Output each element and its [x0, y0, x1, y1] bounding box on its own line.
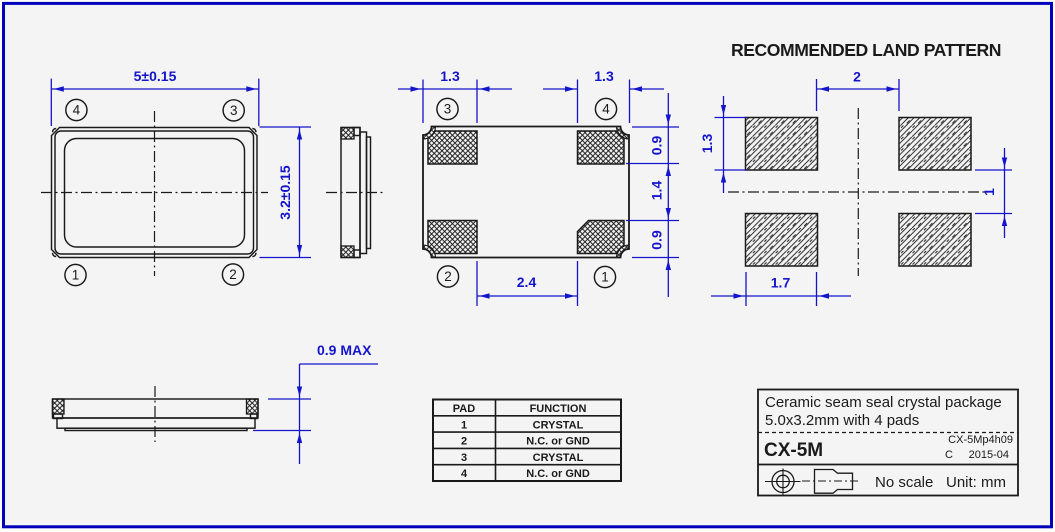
front view outer outline: [52, 128, 258, 258]
svg-text:1.3: 1.3: [699, 134, 715, 154]
land pad bottom-left: [746, 214, 818, 267]
svg-text:CRYSTAL: CRYSTAL: [533, 452, 584, 464]
side view lid: [360, 132, 367, 254]
balloon 2 bottom view: [437, 266, 458, 287]
land pad bottom-right: [899, 214, 971, 267]
svg-text:3: 3: [461, 452, 467, 464]
table column line: [495, 400, 497, 482]
side view bottom pad: [341, 246, 354, 258]
title block outline: [758, 390, 1018, 496]
dimension 1.3 left: [398, 68, 512, 123]
side view top seam detail: [354, 128, 360, 136]
profile left pad step: [54, 414, 63, 419]
pin 4 balloon: [66, 99, 87, 120]
svg-text:N.C. or GND: N.C. or GND: [526, 468, 590, 480]
svg-text:CX-5Mp4h09: CX-5Mp4h09: [948, 434, 1013, 446]
land pad top-right: [899, 118, 971, 171]
side view lid edge: [367, 137, 371, 249]
side view body: [341, 128, 360, 258]
projection symbol axis: [802, 480, 859, 482]
title block dashed divider: [758, 432, 1018, 434]
svg-text:0.9: 0.9: [649, 136, 665, 156]
svg-text:FUNCTION: FUNCTION: [530, 403, 587, 415]
svg-text:1: 1: [601, 270, 609, 285]
front view vertical centerline: [154, 111, 156, 276]
svg-text:0.9: 0.9: [649, 230, 665, 250]
profile right pad step: [251, 414, 258, 419]
svg-text:3: 3: [230, 103, 238, 118]
dimension 1.3 right: [543, 68, 664, 123]
profile centerline: [154, 386, 156, 442]
svg-text:Ceramic seam seal crystal pack: Ceramic seam seal crystal package: [765, 394, 1002, 411]
svg-text:2015-04: 2015-04: [969, 449, 1009, 461]
dimension 3.2±0.15: [260, 127, 312, 258]
svg-text:CX-5M: CX-5M: [764, 440, 823, 461]
land pattern vertical centerline: [857, 108, 859, 276]
dimension 1.7 (land pad width): [711, 272, 851, 306]
profile bottom strip: [65, 428, 247, 430]
svg-text:CRYSTAL: CRYSTAL: [533, 419, 584, 431]
svg-text:1: 1: [981, 188, 997, 196]
balloon 3 bottom view: [437, 98, 458, 119]
svg-text:1.7: 1.7: [771, 275, 791, 291]
pin 3 balloon: [223, 100, 244, 121]
front view horizontal centerline: [41, 192, 268, 194]
castellation corner band (pad 2 corner): [423, 245, 436, 258]
svg-text:2: 2: [229, 267, 237, 282]
table outline: [433, 400, 621, 482]
svg-text:3: 3: [444, 102, 452, 117]
svg-text:0.9 MAX: 0.9 MAX: [317, 342, 372, 358]
profile body: [53, 399, 259, 418]
svg-text:5±0.15: 5±0.15: [134, 68, 177, 84]
svg-text:Unit: mm: Unit: mm: [946, 474, 1006, 491]
castellation corner band (pad 3 corner): [423, 127, 436, 140]
profile right pad: [247, 399, 259, 414]
dimension 1 (land pad vertical gap): [975, 148, 1012, 238]
profile lid: [57, 418, 255, 428]
projection symbol cone: [815, 470, 853, 494]
svg-text:N.C. or GND: N.C. or GND: [526, 436, 590, 448]
svg-text:1.4: 1.4: [649, 181, 665, 201]
dimension 2 (pad gap): [817, 69, 900, 112]
castellation corner band (pad 1 corner): [617, 245, 630, 258]
pin 1 balloon: [65, 264, 86, 285]
svg-text:4: 4: [461, 468, 468, 480]
svg-text:2: 2: [853, 69, 861, 85]
balloon 1 bottom view: [594, 266, 615, 287]
svg-text:2: 2: [461, 436, 467, 448]
side view top pad: [341, 128, 354, 140]
pad 1 (hatched, chamfered): [578, 221, 625, 254]
land pattern horizontal centerline: [728, 191, 985, 193]
dimension 2.4: [477, 261, 578, 306]
side view centerline: [326, 192, 386, 194]
svg-text:RECOMMENDED LAND PATTERN: RECOMMENDED LAND PATTERN: [731, 40, 1001, 60]
svg-text:1: 1: [461, 419, 467, 431]
svg-text:3.2±0.15: 3.2±0.15: [277, 165, 293, 220]
svg-text:C: C: [945, 449, 953, 461]
front view seam ring outline: [55, 131, 254, 254]
castellation corner band (pad 4 corner): [617, 127, 630, 140]
svg-text:1.3: 1.3: [440, 68, 460, 84]
svg-text:No scale: No scale: [875, 474, 933, 491]
dimension chain 0.9 / 1.4 / 0.9: [626, 93, 679, 297]
svg-text:2: 2: [444, 269, 452, 284]
svg-text:4: 4: [602, 102, 610, 117]
balloon 4 bottom view: [595, 98, 616, 119]
bottom view outline: [423, 127, 629, 258]
pad 4 (hatched): [578, 131, 625, 164]
table row lines: [433, 415, 621, 417]
land pad top-left: [746, 118, 818, 171]
pad 2 (hatched): [428, 221, 477, 254]
title block solid divider: [758, 464, 1018, 466]
dimension 1.3 (land pad height): [699, 96, 746, 193]
projection symbol circle: [765, 469, 801, 495]
pad 3 (hatched): [428, 131, 477, 164]
side view bottom seam detail: [354, 250, 360, 258]
svg-text:2.4: 2.4: [517, 274, 537, 290]
svg-text:PAD: PAD: [453, 403, 475, 415]
svg-text:5.0x3.2mm with 4 pads: 5.0x3.2mm with 4 pads: [765, 412, 919, 429]
profile left pad: [53, 399, 65, 414]
dimension 5±0.15: [51, 68, 258, 126]
dimension 0.9 MAX: [253, 342, 378, 464]
svg-text:4: 4: [73, 103, 81, 118]
pin 2 balloon: [222, 264, 243, 285]
svg-text:1.3: 1.3: [594, 68, 614, 84]
front view inner cavity outline: [65, 139, 245, 248]
svg-text:1: 1: [72, 268, 80, 283]
